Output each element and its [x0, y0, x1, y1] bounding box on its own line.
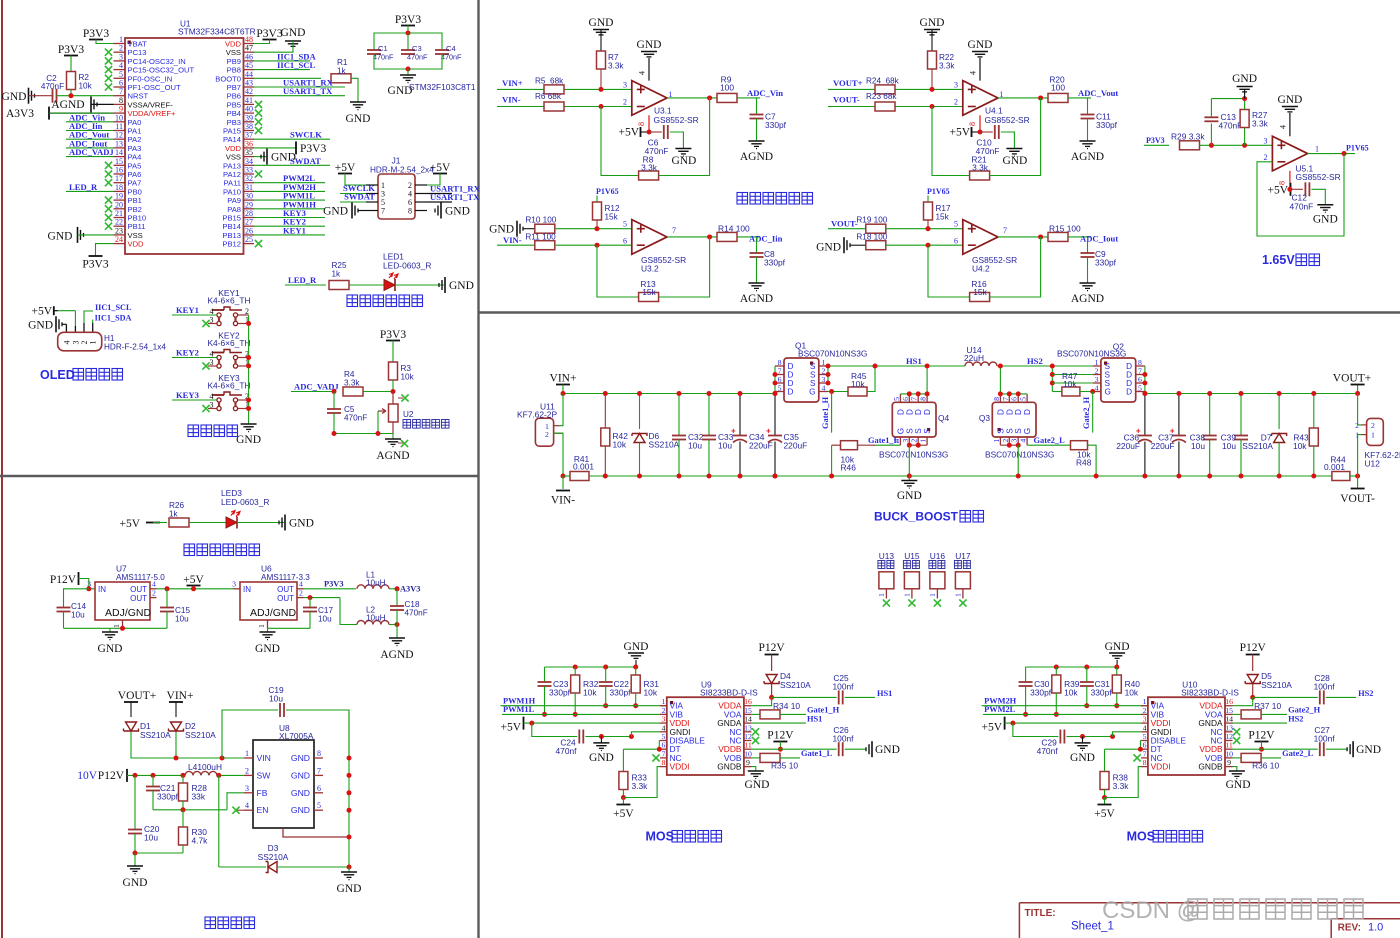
capacitor C8 330pf [756, 237, 758, 253]
wire P12V branch to C14 [64, 589, 89, 607]
U1 pin 9 VDDA/VREF+ [114, 112, 126, 114]
svg-text:SWCLK: SWCLK [290, 130, 322, 140]
svg-text:4: 4 [1279, 125, 1288, 129]
capacitor C23 330pf [544, 667, 546, 682]
resistor R47 10k [1052, 391, 1062, 393]
resistor R26 1k [169, 518, 189, 527]
junction [1239, 391, 1244, 396]
led LED3 LED-0603_R [226, 517, 237, 528]
svg-text:P1V65: P1V65 [927, 187, 950, 196]
svg-text:15k: 15k [642, 287, 656, 297]
svg-text:1: 1 [119, 35, 123, 44]
capacitor C39 10u column [1240, 394, 1242, 436]
wire LED1 to GND [395, 284, 444, 286]
svg-text:8: 8 [968, 122, 977, 126]
junction [1142, 474, 1147, 479]
wire KEY3 to common [238, 399, 249, 401]
junction [1038, 234, 1043, 239]
svg-text:D: D [914, 409, 923, 415]
wire U11 pin1 to rail [560, 394, 564, 426]
svg-text:100nf: 100nf [1314, 682, 1336, 692]
net label USART1_TX (J1 pin6) [427, 201, 452, 203]
svg-text:8: 8 [1143, 758, 1147, 767]
Q3 pin 5 D (top) [1026, 394, 1028, 402]
svg-text:G: G [896, 428, 905, 434]
svg-text:PB11: PB11 [128, 222, 146, 231]
svg-text:PA13: PA13 [223, 161, 241, 170]
U7 pin2 OUT [150, 597, 157, 599]
svg-text:PA8: PA8 [227, 205, 241, 214]
svg-text:10u: 10u [688, 441, 702, 451]
svg-text:AGND: AGND [51, 99, 84, 111]
regulator U7 AMS1117-5.0 body [95, 582, 150, 620]
capacitor C26 100nf [780, 748, 836, 750]
connector U12 KF7.62-2P body [1367, 418, 1384, 445]
Q1 pin 1 S [819, 365, 828, 367]
connector H1 HDR-F-2.54_1x4 body [58, 332, 102, 351]
junction [1102, 795, 1107, 800]
junction [930, 104, 935, 109]
U1 pin 22 PB11 [114, 225, 126, 227]
svg-text:PB5: PB5 [227, 100, 241, 109]
svg-text:2: 2 [152, 589, 156, 598]
svg-text:D: D [1023, 409, 1032, 415]
svg-text:9: 9 [119, 105, 123, 114]
ground GND (C10) [1006, 148, 1022, 150]
wire Q1 gate [828, 391, 848, 393]
Q3 pin 7 D (top) [1008, 394, 1010, 402]
svg-text:PB3: PB3 [227, 118, 241, 127]
svg-text:P12V: P12V [767, 730, 794, 742]
net label IIC1_SDA (H1 pin1) [92, 320, 94, 324]
U1 pin 25 PB12 [244, 243, 255, 245]
net label LED_R wire (pin18) [66, 190, 114, 192]
U1 pin 15 PA5 [114, 164, 126, 166]
U5.1 output / net label P1V65 [1308, 153, 1355, 155]
svg-text:220uF: 220uF [1116, 441, 1140, 451]
net label ADC_Iout wire (pin 13) [66, 147, 114, 149]
wire +5V to H1 pin3 [54, 310, 58, 312]
svg-text:10k: 10k [583, 688, 597, 698]
buck top rail right [1145, 393, 1358, 395]
capacitor C32 10u column [678, 394, 680, 436]
svg-text:PWM2H: PWM2H [984, 696, 1017, 705]
U1 pin 46 PB9 [244, 60, 255, 62]
svg-text:ADC_VADJ: ADC_VADJ [69, 147, 114, 157]
svg-text:100: 100 [1051, 83, 1065, 93]
svg-text:4: 4 [662, 723, 666, 732]
net label VOUT- (R19) [828, 228, 866, 230]
svg-text:4: 4 [1019, 439, 1028, 443]
svg-text:R5 68k: R5 68k [535, 77, 564, 86]
svg-text:U4.1: U4.1 [985, 106, 1003, 116]
resistor R43 10k column [1313, 394, 1315, 428]
svg-text:GNDB: GNDB [1198, 762, 1223, 772]
svg-text:GND: GND [281, 27, 306, 39]
diode D3 SS210A [268, 862, 277, 873]
net label IIC1_SCL (H1 pin2) [84, 311, 93, 323]
svg-text:VSS: VSS [226, 153, 241, 162]
capacitor C21 330pf [152, 775, 154, 786]
svg-text:470nf: 470nf [1037, 746, 1059, 756]
svg-text:D: D [923, 409, 932, 415]
U9 pin 1 VIA [660, 705, 667, 707]
svg-text:7: 7 [1003, 226, 1007, 235]
buck top rail left [563, 393, 775, 395]
svg-text:10k: 10k [1064, 688, 1078, 698]
svg-text:K4-6×6_TH: K4-6×6_TH [207, 296, 250, 306]
capacitor C35 220uF column [774, 394, 776, 436]
svg-text:5: 5 [1143, 732, 1147, 741]
wire +5V to pin2 [427, 174, 440, 186]
svg-text:1: 1 [1143, 697, 1147, 706]
U1 pin 12 PA2 [114, 138, 126, 140]
svg-text:ADC_Iout: ADC_Iout [1080, 234, 1118, 244]
feedback resistor R21 3.3k [932, 107, 970, 176]
wire R47 to gate [1080, 391, 1093, 393]
junction [561, 391, 566, 396]
net label PWM2L [983, 713, 1148, 715]
svg-text:7: 7 [119, 87, 123, 96]
svg-text:1.65V: 1.65V [1262, 253, 1295, 267]
svg-text:R48: R48 [1076, 458, 1092, 468]
svg-text:USART1_TX: USART1_TX [430, 192, 480, 202]
svg-text:220uF: 220uF [1151, 441, 1175, 451]
svg-text:9: 9 [1227, 758, 1231, 767]
junction [406, 67, 411, 72]
svg-text:U6: U6 [261, 564, 272, 574]
svg-text:VIN+: VIN+ [502, 78, 523, 88]
svg-text:GND: GND [589, 17, 614, 29]
junction [347, 865, 352, 870]
junction node NRST [69, 93, 74, 98]
svg-text:100nf: 100nf [833, 682, 855, 692]
U1 pin 10 PA0 [114, 121, 126, 123]
U1 pin 16 PA6 [114, 173, 126, 175]
junction [925, 364, 930, 369]
junction [1023, 712, 1028, 717]
resistor R14 100 [717, 232, 737, 241]
Q1 pin 5 D [775, 391, 784, 393]
Q4 pin 2 S (bottom) [917, 437, 919, 445]
standoff U15 body [904, 572, 919, 589]
mosfet Q4 BSC070N10NS3G body (low side left) [892, 402, 936, 437]
net label KEY2 [172, 357, 217, 359]
svg-text:1: 1 [928, 593, 937, 597]
U1 pin 23 VSS [114, 234, 126, 236]
wire SW node down [218, 775, 220, 867]
U12 pin1 [1361, 434, 1367, 436]
svg-text:2: 2 [119, 44, 123, 53]
svg-text:S: S [923, 428, 932, 434]
wire AGND pin8 [91, 103, 114, 105]
svg-text:220uF: 220uF [784, 441, 808, 451]
junction [246, 355, 251, 360]
junction [1176, 474, 1181, 479]
ground AGND (C8) [749, 282, 765, 284]
net label Gate2_L [1261, 757, 1281, 759]
wire pin1 [96, 40, 114, 44]
svg-text:28: 28 [245, 209, 253, 218]
svg-text:470nF: 470nF [41, 82, 64, 91]
resistor R25 1k [329, 281, 349, 290]
mosfet Q3 BSC070N10NS3G body (low side right) [992, 402, 1036, 437]
junction [907, 474, 912, 479]
svg-text:10k: 10k [79, 82, 93, 91]
svg-text:16: 16 [115, 166, 123, 175]
capacitor C9 330pf [1087, 237, 1089, 253]
net label ADC_Vout wire (pin 12) [66, 138, 114, 140]
svg-text:Gate2_L: Gate2_L [1034, 436, 1066, 445]
svg-text:D: D [905, 409, 914, 415]
resistor R29 3.3k [1180, 141, 1200, 150]
Q3 pin 4 G (bottom) [1026, 437, 1028, 445]
svg-text:+5V: +5V [1094, 808, 1115, 820]
junction [707, 234, 712, 239]
svg-text:GND: GND [28, 319, 53, 331]
junction [406, 31, 411, 36]
U9 pin 9 GNDB [744, 766, 752, 768]
svg-text:1: 1 [877, 593, 886, 597]
svg-text:AGND: AGND [1071, 293, 1104, 305]
svg-text:SS210A: SS210A [185, 730, 216, 740]
net label VIN- (R11) [497, 244, 535, 246]
svg-text:ADJ/GND: ADJ/GND [250, 607, 297, 619]
svg-text:+5V: +5V [430, 162, 451, 174]
junction [773, 391, 778, 396]
capacitor C19 10u [222, 710, 278, 758]
svg-text:17: 17 [115, 174, 123, 183]
svg-text:KEY2: KEY2 [176, 348, 199, 358]
svg-text:39: 39 [245, 113, 253, 122]
resistor R28 33k [182, 775, 184, 783]
net label P3V3 (U6 out) [304, 588, 357, 590]
resistor R23 68k [875, 102, 895, 111]
svg-text:2: 2 [954, 98, 958, 107]
capacitor C6 470nF [649, 131, 662, 133]
svg-text:10k: 10k [1125, 688, 1139, 698]
net label Gate1_H [780, 713, 806, 715]
junction [1355, 474, 1360, 479]
U8 pin 1 VIN [244, 757, 253, 759]
ic U9 SI8233BD-D-IS body [667, 697, 744, 775]
EN unused X [236, 809, 244, 811]
Q4 pin 3 S (bottom) [908, 437, 910, 445]
svg-text:PB10: PB10 [128, 214, 147, 223]
junction [998, 364, 1003, 369]
svg-text:R6 68k: R6 68k [535, 92, 562, 101]
junction [1242, 143, 1247, 148]
junction [347, 773, 352, 778]
diode D1 SS210A [126, 722, 137, 731]
wire +5V to R26 [153, 522, 167, 524]
Q2 pin 4 G [1093, 391, 1101, 393]
ground AGND (L2/C18) [389, 637, 405, 639]
svg-text:15: 15 [1225, 706, 1233, 715]
junction [1142, 372, 1147, 377]
U13 value copper pillar [878, 561, 885, 569]
junction [829, 474, 834, 479]
junction [773, 474, 778, 479]
svg-text:STM32F103C8T1: STM32F103C8T1 [409, 82, 476, 92]
junction [738, 391, 743, 396]
junction [181, 773, 186, 778]
keys common vertical wire [248, 315, 250, 424]
svg-text:10k: 10k [1063, 379, 1077, 389]
wire U12 pin1 to bottom rail [1358, 435, 1361, 476]
mosfet Q2 BSC070N10NS3G body [1101, 358, 1136, 402]
svg-text:HS2: HS2 [1358, 689, 1373, 698]
svg-text:100nf: 100nf [833, 734, 855, 744]
svg-text:4: 4 [1143, 723, 1147, 732]
net HS2 rail [997, 365, 1093, 367]
U4.1 output wire [998, 97, 1048, 99]
U10 filter top rail [1026, 666, 1118, 668]
U17 pin 1 [962, 589, 964, 599]
svg-text:Q3: Q3 [979, 413, 991, 423]
U1 pin 7 NRST [114, 95, 126, 97]
U8 pin 3 FB [244, 792, 253, 794]
svg-text:GND: GND [98, 643, 123, 655]
section label power circuit [205, 917, 216, 929]
junction [769, 695, 774, 700]
wire U12 pin2 to VOUT+ rail [1358, 394, 1361, 425]
U10 pin 14 GNDA [1225, 722, 1233, 724]
svg-text:R11 100: R11 100 [525, 232, 556, 241]
svg-text:8: 8 [992, 397, 1001, 401]
U9 pin 10 VOB [744, 757, 752, 759]
U9 pin7 NC X [652, 754, 659, 761]
svg-text:41: 41 [245, 96, 253, 105]
net label Gate2_L wire [1027, 444, 1070, 446]
net label USART1_RX (J1 pin4) [427, 193, 452, 195]
U1 pin 32 PA11 [244, 182, 255, 184]
junction [347, 808, 352, 813]
U1 pin 40 PB4 [244, 112, 255, 114]
svg-text:ADC_Iin: ADC_Iin [749, 234, 783, 244]
svg-text:S: S [996, 428, 1005, 434]
junction [1287, 187, 1292, 192]
svg-text:GS8552-SR: GS8552-SR [985, 115, 1030, 125]
wire D3 to right rail [277, 866, 349, 868]
junction [1239, 474, 1244, 479]
svg-text:OUT: OUT [130, 585, 147, 594]
wire GNDI [1113, 732, 1142, 737]
svg-text:GND: GND [1070, 752, 1095, 764]
resistor R3 10k [389, 362, 398, 380]
svg-text:14: 14 [115, 148, 123, 157]
svg-text:AGND: AGND [376, 450, 409, 462]
svg-text:16: 16 [744, 697, 752, 706]
net label PWM1L (pin 30) [254, 199, 325, 201]
ground GND (GNDB) [751, 767, 755, 771]
svg-text:OLED: OLED [40, 368, 75, 382]
svg-text:7: 7 [1001, 397, 1010, 401]
svg-text:47: 47 [245, 44, 253, 53]
junction [1080, 734, 1085, 739]
resistor R20 100 [1048, 93, 1068, 102]
svg-text:PA14: PA14 [223, 135, 241, 144]
U16 value copper pillar [929, 561, 936, 569]
capacitor C33 10u column [708, 394, 710, 436]
net label Gate1_H wire [831, 392, 833, 433]
svg-text:GND: GND [875, 744, 900, 756]
net label KEY3 (pin 28) [254, 217, 325, 219]
Q3 source to rail [1017, 445, 1019, 476]
svg-text:7: 7 [381, 207, 385, 216]
svg-text:330pf: 330pf [765, 120, 787, 130]
svg-text:6: 6 [901, 397, 910, 401]
svg-text:+5V: +5V [613, 808, 634, 820]
svg-text:11: 11 [1225, 741, 1233, 750]
power port VIN- [562, 476, 564, 489]
junction [133, 851, 138, 856]
junction [120, 626, 125, 631]
svg-text:Gate1_H: Gate1_H [807, 706, 840, 715]
U8 pin 6 GND [314, 792, 323, 794]
svg-text:GND: GND [323, 206, 348, 218]
svg-text:PWM1L: PWM1L [503, 705, 535, 714]
svg-text:PA1: PA1 [128, 127, 142, 136]
Q4 pin 7 D (top) [917, 394, 919, 402]
junction [978, 130, 983, 135]
wire U7 OUT to U6 IN [157, 588, 234, 590]
U3.1 pin 4 to GND [648, 58, 650, 81]
svg-text:R24 68k: R24 68k [866, 77, 900, 86]
junction [395, 622, 400, 627]
wire DISABLE/DT tie [1139, 740, 1142, 742]
junction [738, 474, 743, 479]
svg-text:3: 3 [1264, 136, 1268, 145]
net label ADC_Vin [737, 97, 760, 99]
svg-text:P3V3: P3V3 [1146, 136, 1165, 145]
Q1 pin 2 S [819, 374, 828, 376]
svg-text:13: 13 [1225, 723, 1233, 732]
svg-text:GND: GND [291, 788, 310, 798]
svg-text:1: 1 [662, 697, 666, 706]
Q3 pin 1 S (bottom) [999, 437, 1001, 445]
ic U10 SI8233BD-D-IS body [1148, 697, 1225, 775]
svg-text:PA11: PA11 [224, 179, 241, 188]
svg-text:G: G [1105, 388, 1111, 397]
wire C14 to rail [63, 612, 65, 629]
svg-text:13: 13 [744, 723, 752, 732]
svg-text:OUT: OUT [130, 594, 147, 603]
svg-text:D: D [1005, 409, 1014, 415]
svg-text:2: 2 [1264, 153, 1268, 162]
junction [707, 474, 712, 479]
U1 pin 47 VSS [244, 51, 255, 53]
junction [826, 372, 831, 377]
svg-text:4: 4 [1095, 384, 1099, 393]
junction [246, 398, 251, 403]
ground GND (U7) [102, 631, 118, 633]
svg-text:U16: U16 [930, 551, 946, 561]
U1 pin 45 PB8 [244, 69, 255, 71]
net label SWDAT (J1 pin5) [340, 201, 366, 203]
svg-text:J1: J1 [392, 156, 401, 166]
svg-text:P3V3: P3V3 [380, 329, 406, 341]
wire VDDA [751, 697, 771, 705]
junction [1176, 391, 1181, 396]
junction [603, 391, 608, 396]
Q4 pin 5 D (top) [899, 394, 901, 402]
resistor R12 15k [593, 202, 602, 220]
junction [930, 87, 935, 92]
svg-text:14: 14 [744, 715, 752, 724]
wire P3V3 to R3 [392, 341, 394, 363]
U9 pin 6 DT [660, 748, 667, 750]
